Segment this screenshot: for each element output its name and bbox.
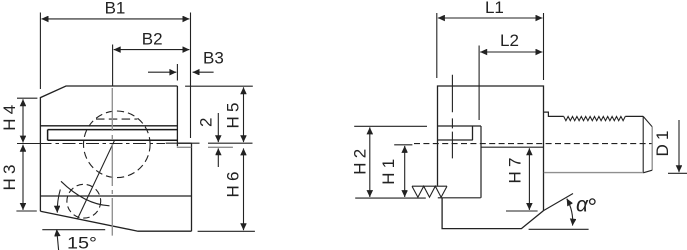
body outline left view [40, 86, 191, 231]
svg-text:L2: L2 [500, 31, 519, 50]
shank top line after teeth [625, 115, 643, 117]
svg-text:B3: B3 [203, 48, 224, 67]
shank serration teeth [564, 116, 626, 120]
svg-text:°: ° [588, 194, 598, 221]
H7 top reference surface [482, 146, 544, 148]
dimension H7 [506, 148, 538, 211]
dimension H1 [394, 145, 412, 197]
horizontal centerline dash-dot [17, 143, 52, 145]
big dashed circle (VDI shank) [84, 111, 151, 178]
svg-text:B2: B2 [142, 30, 163, 49]
svg-text:15°: 15° [67, 234, 97, 250]
pocket floor internal line [438, 197, 481, 199]
serration strip left face [412, 186, 447, 197]
dimension 2 [217, 113, 219, 167]
diagonal swivel line [78, 140, 115, 219]
vertical centerline gray [111, 88, 113, 236]
pocket inner wall internal line [480, 126, 482, 198]
swivel arc [61, 181, 110, 206]
shank end top chamfer [643, 116, 652, 126]
dimension B2 [113, 45, 190, 86]
dimension H6 [198, 148, 255, 231]
dimension L2 [479, 46, 542, 121]
dimension B3 [148, 64, 214, 81]
shank bottom line gray [544, 172, 643, 174]
body feature line [40, 195, 191, 197]
dimension H2 [354, 126, 427, 198]
slot rectangle [48, 130, 178, 141]
dimension L1 [437, 13, 544, 80]
shank end face gray [651, 127, 653, 170]
shank step [544, 112, 564, 116]
dimension 15 degrees [42, 190, 105, 250]
svg-text:L1: L1 [485, 0, 504, 17]
slot top line [40, 125, 177, 127]
shank end bottom chamfer [643, 170, 652, 173]
hidden chord dashed [96, 118, 137, 120]
shank end face edge [642, 116, 644, 173]
step surface tick (2mm upper) [166, 142, 253, 144]
dimension alpha [529, 194, 589, 230]
dimension D1 [668, 120, 687, 173]
tool slot box side view [438, 126, 482, 140]
gray alternate step line [177, 146, 233, 148]
dimension H3 [16, 145, 36, 211]
block outline [438, 86, 544, 229]
axis dashed line right view [414, 143, 652, 145]
dimension H4 [17, 98, 37, 142]
dimension H5 [185, 86, 253, 142]
svg-text:B1: B1 [105, 0, 126, 18]
dimension B1 [40, 13, 190, 139]
screw axis chain line [451, 75, 453, 159]
small dashed circle [67, 184, 101, 218]
svg-text:2: 2 [197, 118, 216, 127]
